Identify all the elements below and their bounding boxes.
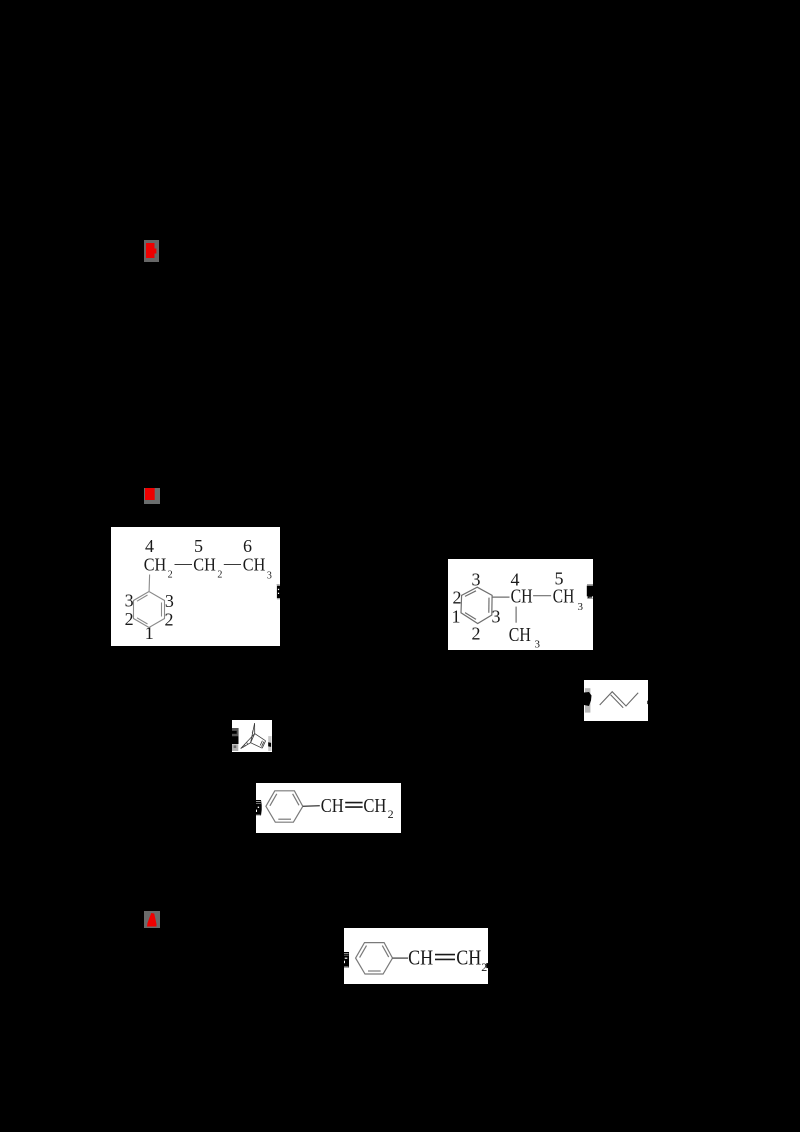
svg-text:CH: CH [363, 795, 386, 817]
svg-text:2: 2 [168, 570, 173, 581]
svg-text:3: 3 [165, 591, 174, 611]
svg-text:2: 2 [472, 624, 481, 644]
svg-text:3: 3 [125, 591, 134, 611]
svg-text:2: 2 [388, 807, 394, 821]
svg-text:CH: CH [509, 625, 531, 646]
svg-text:4: 4 [145, 536, 154, 556]
svg-text:CH: CH [243, 554, 266, 574]
svg-text:1: 1 [452, 607, 461, 627]
svg-text:CH: CH [144, 554, 167, 574]
svg-text:2: 2 [217, 570, 222, 581]
svg-text:5: 5 [194, 536, 203, 556]
svg-text:CH: CH [193, 554, 216, 574]
svg-text:2: 2 [453, 588, 462, 608]
svg-text:CH: CH [456, 945, 481, 969]
svg-text:CH: CH [511, 586, 533, 607]
svg-text:2: 2 [125, 609, 134, 629]
svg-text:CH: CH [408, 945, 433, 969]
svg-text:2: 2 [165, 609, 174, 629]
svg-text:6: 6 [243, 536, 252, 556]
svg-text:CH: CH [553, 586, 574, 607]
svg-text:3: 3 [492, 607, 501, 627]
svg-text:3: 3 [578, 601, 584, 613]
svg-text:CH: CH [321, 795, 344, 817]
svg-text:3: 3 [535, 639, 541, 651]
svg-text:3: 3 [267, 571, 272, 582]
svg-text:3: 3 [472, 570, 481, 590]
